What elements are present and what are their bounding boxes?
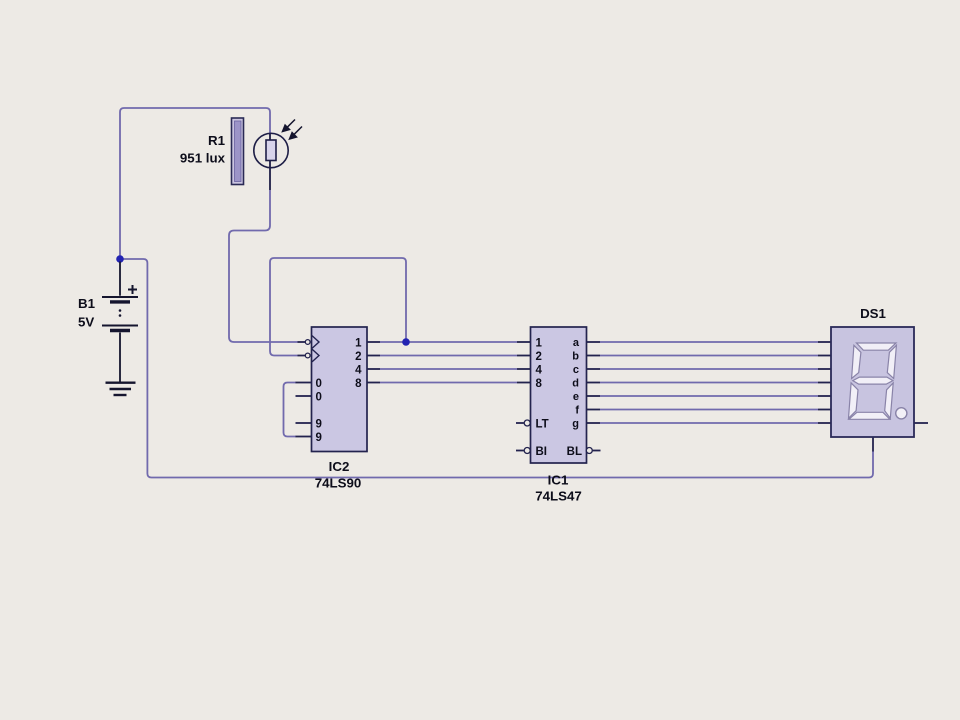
svg-text:1: 1	[355, 337, 362, 349]
svg-text:BL: BL	[567, 446, 582, 458]
svg-text:e: e	[573, 391, 579, 403]
svg-text:IC1: IC1	[548, 473, 569, 488]
svg-text:a: a	[573, 337, 580, 349]
svg-text:1: 1	[536, 337, 543, 349]
svg-text:d: d	[572, 377, 579, 389]
svg-text:B1: B1	[78, 296, 96, 311]
svg-text:4: 4	[536, 364, 543, 376]
svg-text:74LS47: 74LS47	[535, 489, 582, 504]
svg-text:2: 2	[536, 351, 542, 363]
svg-text:951 lux: 951 lux	[180, 151, 226, 166]
svg-text:0: 0	[316, 378, 322, 390]
svg-text:BI: BI	[536, 446, 548, 458]
svg-text:8: 8	[536, 378, 543, 390]
svg-text:8: 8	[355, 378, 362, 390]
svg-text:b: b	[572, 350, 579, 362]
svg-text:0: 0	[316, 391, 322, 403]
svg-text:g: g	[572, 418, 579, 430]
svg-text:2: 2	[355, 351, 361, 363]
svg-text:9: 9	[316, 418, 322, 430]
svg-text:LT: LT	[536, 418, 549, 430]
svg-text:5V: 5V	[78, 315, 94, 330]
svg-text:9: 9	[316, 432, 322, 444]
svg-text:c: c	[573, 364, 579, 376]
svg-text:DS1: DS1	[860, 306, 886, 321]
svg-text:R1: R1	[208, 133, 226, 148]
svg-text:f: f	[575, 404, 579, 416]
svg-text:4: 4	[355, 364, 362, 376]
svg-text:IC2: IC2	[329, 459, 350, 474]
svg-text:74LS90: 74LS90	[315, 476, 362, 491]
